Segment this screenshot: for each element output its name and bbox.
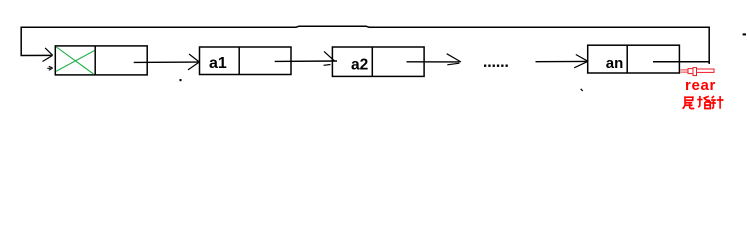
label a2 bbox=[351, 57, 368, 74]
svg-text:an: an bbox=[606, 55, 624, 72]
label a1 bbox=[209, 55, 227, 72]
arrowhead of loop wire entering head node bbox=[43, 48, 53, 62]
stray mark: apostrophe dot below head-a1 wire bbox=[180, 79, 182, 81]
arrowhead into an bbox=[574, 55, 588, 68]
wire: head.next to node a1 bbox=[134, 61, 198, 63]
glyph 针 bbox=[711, 96, 723, 109]
stray mark: backtick below an node bbox=[581, 89, 583, 91]
wire: a2.next toward ellipsis bbox=[407, 61, 460, 63]
red rear-pointer block arrow bbox=[681, 68, 715, 76]
wire: rear pointer loop from an.next around the top back to head node bbox=[21, 26, 709, 64]
ellipsis dots ...... bbox=[484, 65, 508, 67]
label 尾指针 (tail pointer) drawn as vector strokes bbox=[683, 96, 724, 109]
arrowhead into a1 bbox=[188, 54, 199, 70]
node a1 box bbox=[200, 47, 292, 75]
head node box bbox=[55, 46, 147, 75]
node an box bbox=[588, 45, 680, 73]
svg-text:a1: a1 bbox=[209, 55, 227, 72]
node a2 box bbox=[332, 47, 424, 76]
green cross diagonal 2 in head node data cell bbox=[56, 51, 94, 72]
arrowhead of a2 wire bbox=[447, 54, 461, 65]
glyph 尾 bbox=[683, 97, 695, 109]
small second arrowhead at head node left edge bbox=[47, 66, 52, 70]
wire: ellipsis toward node an bbox=[536, 60, 587, 62]
wire: a1.next to node a2 bbox=[275, 60, 337, 62]
svg-text:a2: a2 bbox=[351, 57, 368, 74]
green cross diagonal 1 in head node data cell bbox=[56, 47, 93, 74]
label an bbox=[606, 55, 624, 72]
label rear bbox=[685, 77, 716, 94]
arrowhead into a2 bbox=[324, 51, 335, 65]
svg-text:rear: rear bbox=[685, 77, 716, 94]
stray mark: small dash top right bbox=[743, 33, 746, 35]
glyph 指 bbox=[697, 96, 710, 108]
